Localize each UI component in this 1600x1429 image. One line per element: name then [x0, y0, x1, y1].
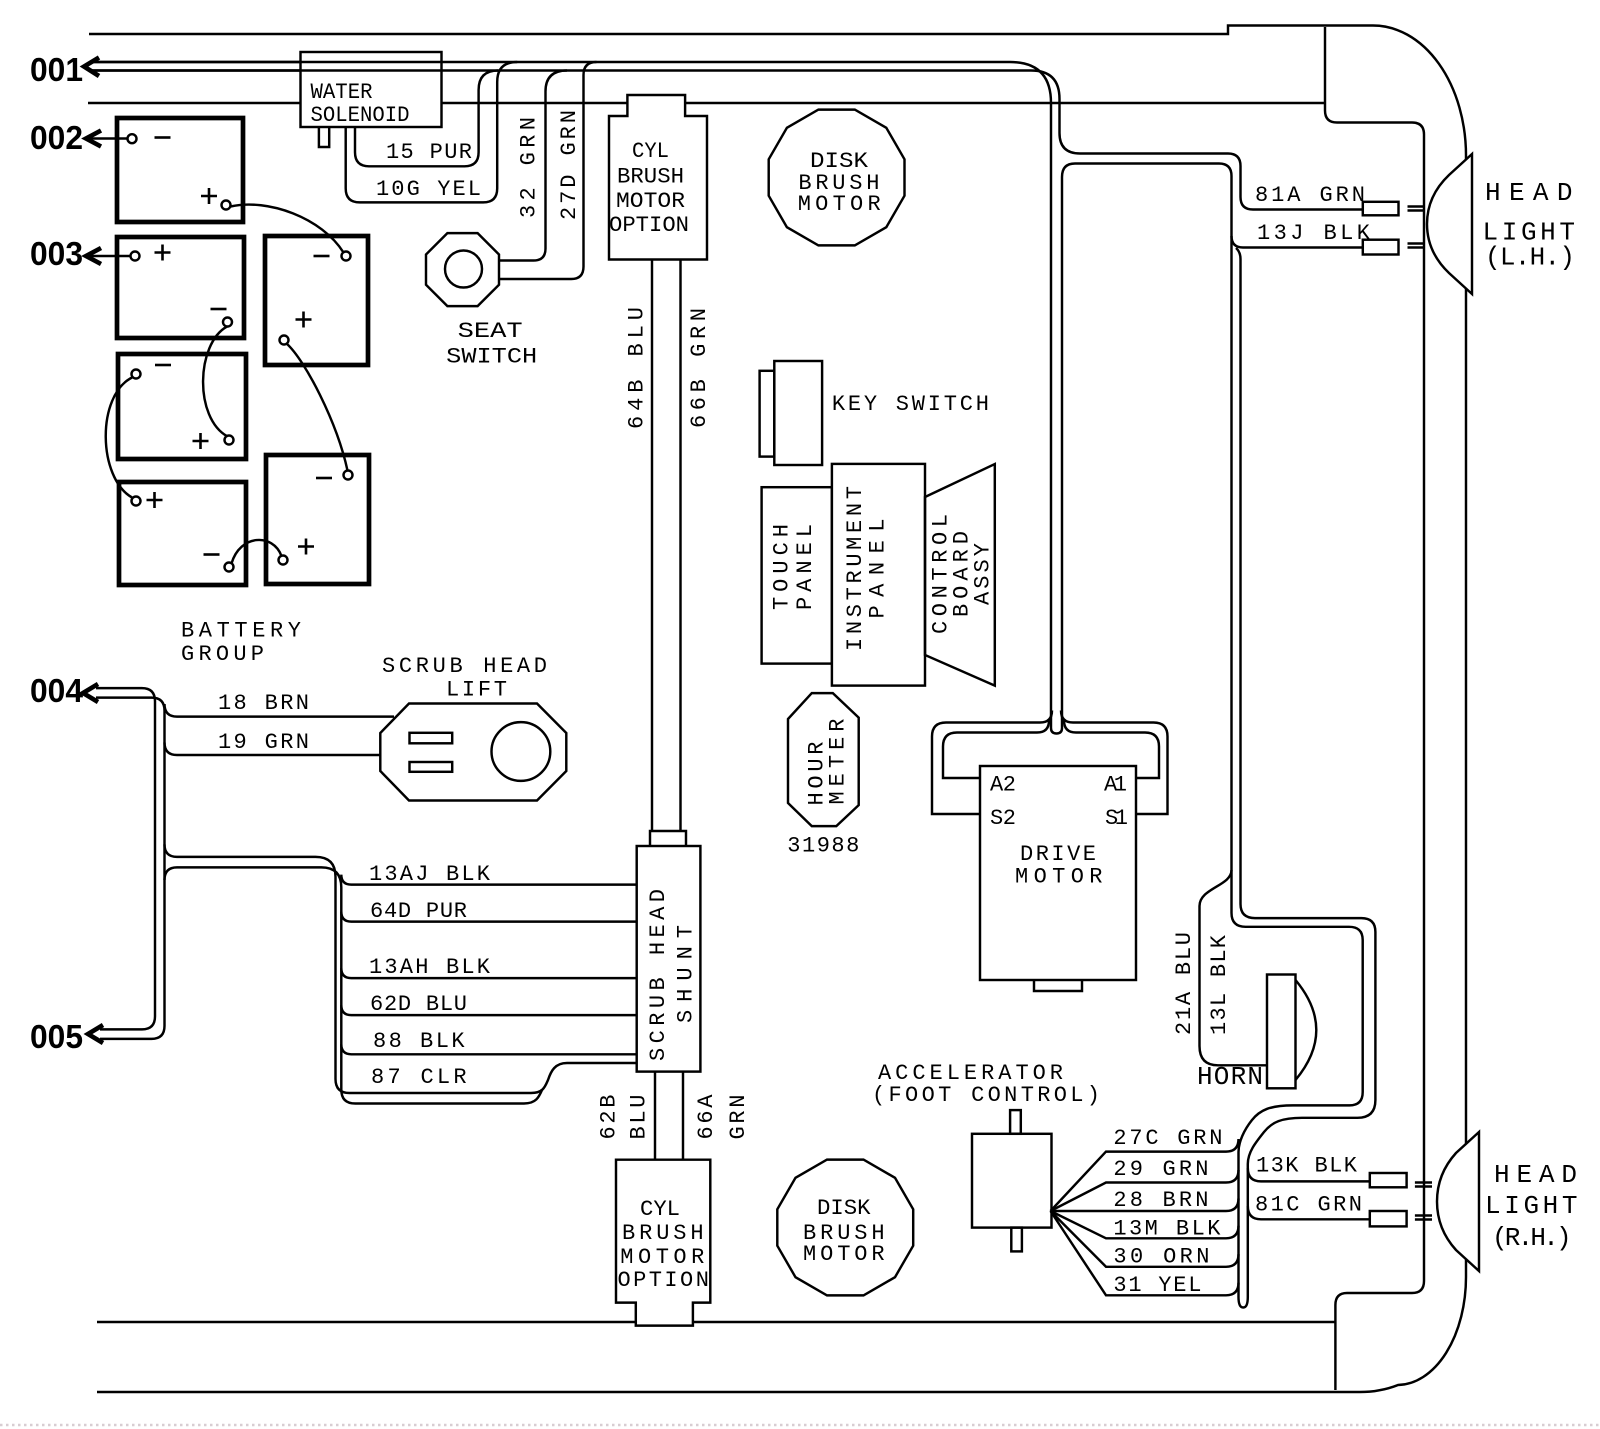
drive motor connector bracket inner left — [943, 721, 1049, 779]
svg-text:81C GRN: 81C GRN — [1255, 1193, 1362, 1218]
svg-text:BATTERY: BATTERY — [181, 619, 301, 644]
node 004 arrowhead — [83, 684, 98, 702]
wire 13M BLK — [1051, 1211, 1239, 1242]
svg-text:SWITCH: SWITCH — [446, 345, 537, 370]
battery M1 plus terminal — [280, 312, 312, 345]
svg-text:BLU: BLU — [627, 1095, 652, 1140]
headlight LH label — [1483, 178, 1576, 273]
svg-text:S2: S2 — [990, 806, 1016, 831]
svg-text:87 CLR: 87 CLR — [371, 1065, 467, 1090]
wire 28 BRN — [1051, 1188, 1239, 1213]
wire 13K BLK — [1248, 1154, 1370, 1182]
wire 18 BRN — [165, 691, 395, 717]
svg-text:13K BLK: 13K BLK — [1256, 1154, 1358, 1179]
svg-text:GRN: GRN — [726, 1095, 751, 1140]
wire 88 BLK — [341, 1029, 636, 1054]
battery L4 — [119, 482, 246, 585]
svg-text:27D GRN: 27D GRN — [557, 110, 582, 220]
wire 13AH BLK — [341, 955, 636, 980]
battery L3 plus terminal — [193, 433, 234, 449]
svg-text:SOLENOID: SOLENOID — [311, 103, 410, 128]
wire 15 PUR — [355, 71, 498, 167]
scrub head shunt box — [637, 831, 701, 1072]
battery group label — [181, 619, 301, 668]
svg-text:OPTION: OPTION — [609, 213, 689, 238]
wire 66A GRN — [683, 1072, 751, 1160]
svg-text:CYL: CYL — [632, 139, 669, 164]
wire 87 CLR — [371, 1063, 637, 1104]
node 003 arrowhead and lead — [86, 248, 131, 264]
battery L1 plus terminal — [201, 188, 231, 210]
svg-text:004: 004 — [30, 672, 84, 709]
svg-text:62D BLU: 62D BLU — [370, 992, 467, 1017]
svg-text:64B BLU: 64B BLU — [625, 307, 650, 429]
harness loop around horn inner — [1232, 899, 1363, 1291]
wire bus 001 inner (to branch A feeding headlight LH) — [90, 71, 1362, 210]
wire 32 GRN — [499, 71, 567, 261]
svg-text:13L BLK: 13L BLK — [1207, 934, 1232, 1035]
svg-text:DRIVE: DRIVE — [1020, 842, 1096, 867]
battery L3 — [118, 354, 246, 459]
drive motor connector bracket inner right — [1064, 721, 1159, 779]
accelerator label — [872, 1061, 1100, 1108]
svg-text:MOTOR: MOTOR — [803, 1242, 885, 1267]
svg-text:HEAD: HEAD — [1494, 1160, 1577, 1190]
svg-text:003: 003 — [30, 235, 83, 272]
svg-text:66B GRN: 66B GRN — [687, 308, 712, 428]
headlight LH pin upper — [1408, 207, 1425, 211]
harness loop around horn outer — [1241, 904, 1376, 1291]
wire 81C GRN — [1248, 1193, 1370, 1220]
svg-text:MOTOR: MOTOR — [798, 192, 881, 217]
jumper wire M1+ to M2- — [287, 344, 348, 471]
instrument panel box — [832, 464, 925, 686]
harness lead upper — [165, 844, 532, 1093]
svg-text:SEAT: SEAT — [458, 319, 523, 344]
jumper wire L2- to L3+ — [203, 327, 227, 437]
battery M1 minus terminal — [314, 252, 351, 261]
water solenoid box — [90, 52, 442, 128]
wire 13AJ BLK — [341, 862, 636, 887]
harness lead lower — [165, 867, 525, 1103]
svg-text:005: 005 — [30, 1018, 83, 1055]
node 005 arrowhead — [88, 1025, 103, 1043]
harness end u-turn — [1239, 1291, 1248, 1308]
scrub head lift label — [382, 654, 547, 703]
hour meter octagon — [788, 693, 859, 826]
svg-text:13J BLK: 13J BLK — [1257, 221, 1371, 246]
wire 64B BLU — [625, 260, 653, 832]
battery M1 — [265, 236, 368, 365]
connector 81C GRN — [1370, 1211, 1407, 1226]
node 001 arrowhead — [84, 58, 99, 77]
drive motor box — [980, 766, 1136, 991]
battery L1 minus terminal — [128, 134, 171, 143]
machine outline inner border (right side) — [1325, 27, 1424, 1390]
svg-text:29 GRN: 29 GRN — [1113, 1157, 1208, 1182]
wire 66B GRN — [681, 260, 713, 832]
water solenoid bottom stub — [319, 127, 329, 147]
svg-text:S1: S1 — [1105, 806, 1128, 831]
wire 62D BLU — [341, 992, 636, 1017]
svg-text:A1: A1 — [1104, 773, 1127, 798]
svg-text:18 BRN: 18 BRN — [218, 691, 309, 716]
wire 27C GRN — [1051, 1126, 1239, 1211]
svg-text:BRUSH: BRUSH — [617, 165, 684, 190]
battery L4 minus terminal — [204, 555, 234, 572]
battery L4 plus terminal — [132, 492, 163, 508]
svg-text:001: 001 — [30, 51, 83, 88]
wire bus single at y103 — [88, 102, 1325, 104]
headlight RH label — [1485, 1160, 1578, 1253]
svg-text:PANEL: PANEL — [793, 524, 818, 610]
wire 10G YEL — [346, 62, 518, 202]
wire bus 001 outer (to drive motor stem left) — [90, 62, 1051, 716]
disk brush motor bottom polygon — [777, 1160, 913, 1296]
svg-text:KEY SWITCH: KEY SWITCH — [832, 392, 989, 417]
dashed line bottom — [0, 1424, 1600, 1427]
svg-text:27C GRN: 27C GRN — [1113, 1126, 1222, 1151]
headlight RH pin upper — [1415, 1183, 1432, 1187]
headlight LH lens — [1427, 154, 1472, 294]
touch panel box — [762, 487, 832, 663]
svg-text:LIFT: LIFT — [446, 678, 507, 703]
svg-text:MOTOR: MOTOR — [1015, 865, 1103, 890]
headlight RH lens — [1437, 1132, 1479, 1271]
wire 29 GRN — [1051, 1157, 1239, 1211]
svg-text:DISK: DISK — [817, 1196, 871, 1221]
svg-text:66A: 66A — [694, 1094, 719, 1140]
svg-text:15 PUR: 15 PUR — [386, 140, 472, 165]
svg-text:81A GRN: 81A GRN — [1255, 183, 1365, 208]
svg-text:MOTOR: MOTOR — [616, 189, 685, 214]
svg-text:WATER: WATER — [311, 80, 373, 105]
svg-text:31988: 31988 — [787, 834, 859, 859]
cyl brush motor option box top — [609, 95, 707, 260]
battery M2 plus terminal — [279, 539, 315, 565]
wire 19 GRN — [165, 730, 382, 755]
jumper wire L4- to M2+ — [232, 540, 282, 564]
svg-text:LIGHT: LIGHT — [1485, 1191, 1578, 1221]
accelerator box — [972, 1110, 1052, 1251]
svg-text:19 GRN: 19 GRN — [218, 730, 309, 755]
svg-text:TOUCH: TOUCH — [770, 524, 795, 610]
svg-text:BRUSH: BRUSH — [622, 1221, 704, 1246]
svg-text:62B: 62B — [597, 1095, 622, 1140]
svg-text:MOTOR: MOTOR — [620, 1245, 704, 1270]
svg-text:METER: METER — [825, 719, 850, 805]
wire 004 pair outer — [96, 688, 155, 1029]
svg-text:64D PUR: 64D PUR — [370, 899, 467, 924]
cyl brush motor option box bottom — [616, 1160, 710, 1326]
jumper wire L3- to L4+ — [106, 378, 132, 498]
connector 13K BLK — [1370, 1173, 1407, 1187]
svg-text:SCRUB HEAD: SCRUB HEAD — [382, 654, 547, 679]
horn symbol — [1267, 975, 1316, 1089]
svg-text:GROUP: GROUP — [181, 642, 264, 667]
svg-text:31 YEL: 31 YEL — [1113, 1273, 1201, 1298]
wire 64D PUR — [341, 899, 636, 924]
headlight RH pin lower — [1415, 1216, 1432, 1220]
battery L2 — [117, 237, 244, 338]
battery M2 minus terminal — [316, 471, 353, 480]
seat switch symbol — [426, 233, 537, 369]
jumper wire L1+ to M1- — [231, 205, 344, 253]
drive motor feed stem (001 pair end cap) — [1051, 716, 1062, 734]
key switch symbol — [760, 361, 989, 465]
drive motor connector bracket outer right — [1061, 711, 1168, 815]
svg-text:13AJ BLK: 13AJ BLK — [369, 862, 491, 887]
svg-text:88 BLK: 88 BLK — [373, 1029, 465, 1054]
wire 30 ORN — [1051, 1211, 1239, 1270]
wire 13J BLK — [1232, 221, 1371, 904]
svg-text:HEAD: HEAD — [1485, 178, 1573, 208]
wire branch B (stem right to VL) — [1062, 164, 1232, 900]
scrub head lift plug — [380, 704, 566, 801]
connector 13J BLK — [1363, 240, 1399, 255]
disk brush motor top polygon — [769, 110, 905, 246]
svg-text:(R.H.): (R.H.) — [1492, 1223, 1572, 1253]
headlight LH pin lower — [1408, 244, 1425, 248]
wire 21A BLU 13L BLK branch to horn — [1172, 870, 1266, 1065]
wire 27D GRN — [499, 62, 597, 279]
svg-text:HORN: HORN — [1197, 1062, 1263, 1092]
machine outline inner bottom border — [97, 1321, 1335, 1323]
control board assy — [925, 464, 995, 686]
svg-text:(L.H.): (L.H.) — [1485, 243, 1575, 273]
drive motor connector bracket outer left — [932, 711, 1052, 815]
svg-text:(FOOT CONTROL): (FOOT CONTROL) — [872, 1083, 1100, 1108]
svg-text:21A BLU: 21A BLU — [1172, 932, 1197, 1035]
svg-text:32 GRN: 32 GRN — [517, 117, 542, 218]
wire 31 YEL — [1051, 1211, 1239, 1298]
battery L2 minus terminal — [211, 309, 233, 327]
svg-text:13AH BLK: 13AH BLK — [369, 955, 491, 980]
svg-text:10G YEL: 10G YEL — [376, 177, 481, 202]
svg-text:A2: A2 — [990, 773, 1016, 798]
node 002 arrowhead and lead — [86, 131, 128, 147]
svg-text:28 BRN: 28 BRN — [1113, 1188, 1208, 1213]
battery M2 — [266, 455, 369, 584]
connector 81A GRN — [1363, 202, 1399, 216]
battery L2 plus terminal — [131, 245, 171, 261]
svg-text:002: 002 — [30, 119, 83, 156]
wire 004 pair inner — [96, 698, 165, 1039]
battery L1 — [117, 118, 243, 222]
battery L3 minus terminal — [132, 365, 172, 379]
svg-text:CYL: CYL — [640, 1197, 680, 1222]
wire 62B BLU — [597, 1072, 656, 1160]
